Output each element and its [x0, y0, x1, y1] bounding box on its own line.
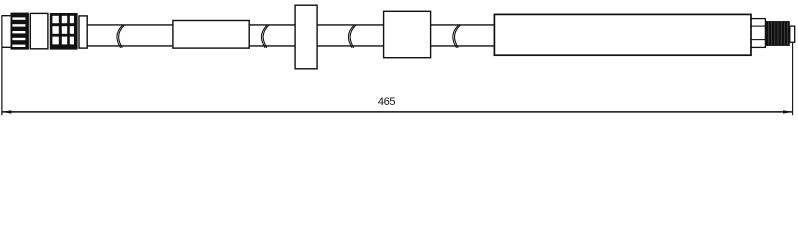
hex nut [751, 19, 765, 48]
hose lap mark 3 [348, 25, 356, 48]
hose segment 4 [431, 25, 495, 46]
fitting hex body [30, 13, 48, 48]
hose segment 3 [317, 25, 384, 46]
hose lap mark 1 [117, 25, 125, 48]
threaded stub [765, 21, 789, 46]
hose sleeve block [384, 11, 431, 57]
female fitting thread block [11, 13, 29, 50]
svg-text:465: 465 [378, 96, 396, 108]
crimp shell with windows [50, 13, 78, 50]
fitting end cap [790, 26, 795, 42]
brake pipe socket outline [2, 16, 11, 48]
protective sleeve 1 [173, 21, 249, 49]
hose segment 1 [87, 25, 173, 46]
right extension line [792, 42, 794, 115]
hose segment 2 [249, 25, 295, 46]
left extension line [1, 15, 3, 115]
mounting grommet [295, 5, 317, 69]
hose collar [79, 16, 87, 48]
dimension line 465 [2, 110, 793, 113]
hose lap mark 4 [453, 25, 461, 48]
protective sleeve 2 [494, 14, 751, 55]
hose lap mark 2 [261, 25, 269, 48]
